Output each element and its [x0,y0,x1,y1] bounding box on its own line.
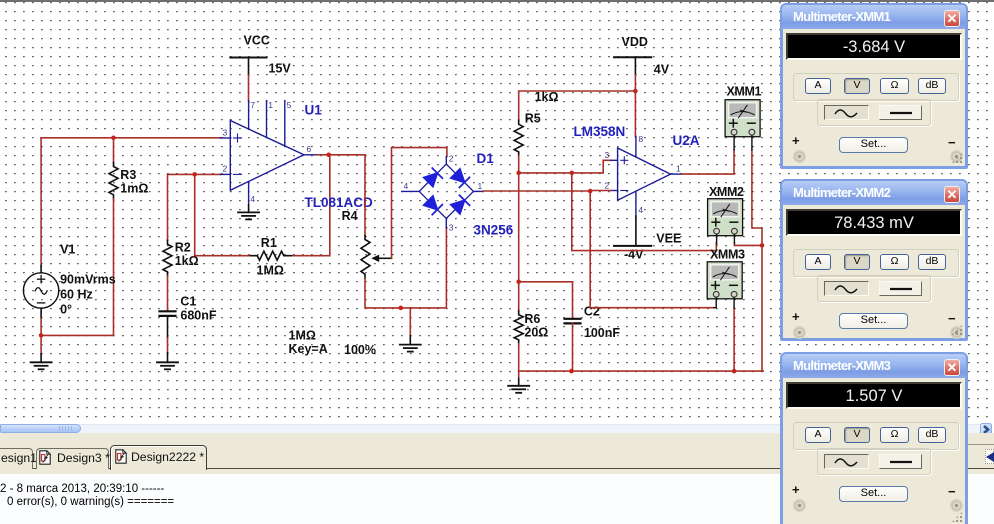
wire: U1 pin4 to ground [248,205,250,212]
net label VDD [622,35,648,49]
svg-text:2: 2 [449,154,454,164]
wire: R2 top to U1 inverting input [168,174,221,240]
wire: U2 pin 4 to VEE [635,216,637,246]
svg-text:15V: 15V [269,62,292,76]
node G junction dot [516,171,521,176]
wire: R3 bottom to bottom node [113,199,115,336]
node K junction dot [569,369,574,374]
wire: VCC to U1 pin 7 [248,75,250,101]
multimeter probe XMM3 icon [707,262,742,299]
wire: node E to ground stem [409,308,411,336]
U1 pin 4 [248,182,250,205]
pin number 3 (D1) [449,223,454,233]
wire: node J to C2 branch [519,282,573,319]
wire: U2 inverting node to pin 2 [590,190,611,192]
svg-text:XMM1: XMM1 [727,85,762,99]
ground (R4 rail) [400,336,421,352]
svg-text:R2: R2 [175,241,191,255]
svg-text:VCC: VCC [244,34,270,48]
svg-text:4: 4 [404,181,409,191]
wire: node H to U2 pin 3 [572,160,611,173]
U1 pin 3 noninverting [221,137,231,139]
svg-text:2: 2 [223,164,228,174]
svg-text:20Ω: 20Ω [524,326,548,340]
label U1 [305,103,323,118]
svg-text:C2: C2 [584,305,600,319]
capacitor C2 [565,319,581,324]
capacitor C1 [160,311,176,316]
bridge diode bottom-right [451,195,470,214]
net label VCC [244,34,270,48]
node I junction dot [588,189,593,194]
resistor R2 [163,240,172,276]
U1 pin 7 [248,101,250,130]
svg-text:60 Hz: 60 Hz [60,288,93,302]
U2 pin 3 [611,159,618,161]
power symbol VDD [614,57,651,75]
label XMM3 [710,248,745,262]
ground (rail) [508,386,529,393]
svg-text:5: 5 [287,100,292,110]
wire: R2 bottom to C1 top [167,276,169,311]
value label 60 Hz [60,288,93,302]
value label 680nF [180,309,216,323]
svg-text:100%: 100% [344,343,376,357]
pin number 2 (D1) [449,154,454,164]
wire: node I down to XMM3 plus [590,191,714,308]
label 3N256 [474,223,514,238]
wire: bottom node to R3 bottom [41,334,113,336]
D1 pin 3 stub [445,219,447,229]
svg-text:3: 3 [605,150,610,160]
svg-text:4: 4 [250,194,255,204]
svg-text:6: 6 [307,144,312,154]
svg-text:1MΩ: 1MΩ [289,329,316,343]
wire: node F to R5 top [519,91,636,120]
wire: R4 wiper to bridge pin 2 [392,148,447,259]
U2 pin 2 [611,190,618,192]
label R6 [524,312,540,326]
wire: bottom rail [519,370,763,372]
svg-text:4V: 4V [654,63,670,77]
svg-text:U2A: U2A [673,133,700,148]
svg-text:R1: R1 [261,236,277,250]
value label 90mVrms [60,273,116,287]
pin number 1 (D1) [478,181,483,191]
ground (C1) [157,362,178,369]
value label 4V [654,63,670,77]
svg-text:R5: R5 [525,112,541,126]
svg-text:D1: D1 [477,151,495,166]
D1 pin 4 stub [402,190,419,192]
svg-text:VEE: VEE [656,232,681,246]
U2 pin 4 [635,191,637,216]
svg-text:XMM3: XMM3 [710,248,745,262]
svg-text:2: 2 [605,181,610,191]
resistor R1 [251,251,294,260]
resistor R5 [514,120,523,156]
wire: R6 bottom to rail [518,344,520,371]
node D junction dot [326,153,331,158]
U1 pin 2 inverting [221,173,231,175]
node E junction dot [399,306,404,311]
wire: C2 bottom to rail [572,323,574,371]
node A junction dot [111,136,116,141]
multimeter probe XMM2 icon [708,199,743,236]
wire: node A to R3 top [113,138,115,163]
pin number 4 (U1) [250,194,255,204]
op-amp U1 TL081ACD [230,121,304,191]
value label 1mOhm [120,182,148,196]
R4 wiper arrow [371,255,379,262]
wire: node G down to node J [518,173,520,282]
label XMM1 [727,85,762,99]
multimeter window XMM1 [780,3,968,169]
value label 1MOhm (R1) [257,264,284,278]
svg-text:3N256: 3N256 [474,223,514,238]
multimeter probe XMM1 icon [725,100,760,137]
value label 0 deg [60,303,72,317]
U1 pin 5 [284,101,286,146]
D1 pin 1 stub [473,190,483,192]
svg-text:LM358N: LM358N [574,124,626,139]
wire: XMM1 plus stub [733,135,735,150]
source V1 [23,266,58,319]
svg-text:3: 3 [223,128,228,138]
svg-text:1: 1 [268,100,273,110]
value label Key=A [289,342,328,356]
pin number 6 [307,144,312,154]
svg-text:1: 1 [478,181,483,191]
U1 pin 6 output [304,154,317,156]
wire: R5 bottom to node G [518,156,520,173]
node F junction dot [633,89,638,94]
wire: node C to R1 left [195,174,251,255]
svg-text:0°: 0° [60,303,72,317]
wire: node F down to U2 pin 8 [634,91,636,137]
wire: node H down to XMM2 plus [572,173,717,251]
svg-text:TL081ACD: TL081ACD [305,195,374,210]
label R4 [342,209,358,223]
node B junction dot [39,333,44,338]
label C1 [180,295,196,309]
value label 100nF [584,326,620,340]
wire: node J to R6 top [518,282,520,311]
wire: R4 bottom to bridge bottom rail [365,228,446,308]
wire: XMM1 minus stub [751,135,753,150]
wire: U1 output to node D [317,154,365,156]
wire: node D down to R4 top [364,155,366,236]
svg-text:C1: C1 [180,295,196,309]
value label 100% [344,343,376,357]
wire: bottom node to ground [40,335,42,362]
value label 1kOhm (R5) [535,90,559,104]
bridge diode bottom-left [424,196,443,215]
svg-text:3: 3 [449,223,454,233]
bottom UI: scrollbar [0,421,994,524]
svg-text:1mΩ: 1mΩ [120,182,148,196]
wire: V1 minus to bottom node [40,318,42,335]
label R1 [261,236,277,250]
svg-text:1: 1 [676,164,681,174]
power symbol VEE [614,245,651,247]
svg-text:R6: R6 [524,312,540,326]
bridge diode top-right [451,169,470,188]
wire: V1 plus to node A horizontal [41,137,220,139]
svg-text:100nF: 100nF [584,326,620,340]
label C2 [584,305,600,319]
pin number 7 [250,100,255,110]
value label 1MOhm (R4) [289,329,316,343]
svg-text:VDD: VDD [622,35,648,49]
wire: VDD down to node F [634,75,636,91]
svg-text:90mVrms: 90mVrms [60,273,116,287]
wire: XMM2 plus stub [716,234,718,244]
label U2A [673,133,700,148]
bottom UI: design tabs [0,433,994,474]
svg-text:1MΩ: 1MΩ [257,264,284,278]
node C junction dot [192,172,197,177]
value label R3 [120,168,136,182]
pin number 2 [223,164,228,174]
wire: D1 pin1 to U2 inverting node [483,190,590,192]
svg-text:8: 8 [638,134,643,144]
wire: node G to node H [519,172,572,174]
resistor R6 [514,311,523,344]
value label 20Ohm [524,326,548,340]
value label -4V [624,248,644,262]
wire: C1 bottom to ground [167,316,169,362]
wire: XMM3 minus stub [733,298,735,309]
net label VEE [656,232,681,246]
svg-text:R3: R3 [120,168,136,182]
label TL081ACD [305,195,374,210]
multimeter window XMM3 [780,352,968,524]
node M junction dot [760,243,765,248]
wire: XMM3 plus stub [714,298,716,308]
wire: V1 plus vertical [40,138,42,266]
wire: rail to ground [518,371,520,386]
pin number 8 (U2) [638,134,643,144]
label R5 [525,112,541,126]
U2 pin 8 [635,137,637,158]
op-amp U2A LM358N [618,148,671,200]
label V1 [60,243,75,257]
wire: XMM2 minus to node M [734,243,762,245]
svg-text:U1: U1 [305,103,323,118]
wire: node M down to rail end [762,245,763,371]
node H junction dot [570,171,575,176]
pin number 3 [223,128,228,138]
svg-text:1kΩ: 1kΩ [535,90,559,104]
diode bridge D1 outline [419,164,473,218]
wire: XMM3 minus down to rail [733,308,735,371]
potentiometer R4 [361,236,392,279]
node J junction dot [516,280,521,285]
label D1 [477,151,495,166]
pin number 1 (U2) [676,164,681,174]
pin number 2 (U2) [605,181,610,191]
pin number 3 (U2) [605,150,610,160]
power symbol VCC [230,58,266,76]
label R2 [175,241,191,255]
svg-text:R4: R4 [342,209,358,223]
value label 1kOhm (R2) [175,254,199,268]
svg-text:Key=A: Key=A [289,342,328,356]
value label 15V [269,62,292,76]
label LM358N [574,124,626,139]
node L junction dot [732,369,737,374]
svg-text:4: 4 [638,205,643,215]
svg-text:680nF: 680nF [180,309,216,323]
resistor R3 [109,163,118,199]
ground (V1) [31,362,52,369]
wire: XMM2 minus stub [733,234,735,243]
svg-text:-4V: -4V [624,248,644,262]
bridge diode top-left [424,168,443,187]
ground (U1) [238,212,259,219]
U2 pin 1 output [671,173,683,175]
wire: U2 output to XMM1 plus [682,150,734,174]
D1 pin 2 stub [445,157,447,165]
svg-text:7: 7 [250,100,255,110]
multimeter window XMM2 [780,179,968,341]
svg-text:XMM2: XMM2 [709,185,744,199]
pin number 4 (D1) [404,181,409,191]
svg-text:V1: V1 [60,243,75,257]
pin number 1 [268,100,273,110]
pin number 4 (U2) [638,205,643,215]
bottom UI: spreadsheet/results pane [0,474,994,476]
wire: XMM1 minus chain [752,150,762,245]
pin number 5 [287,100,292,110]
U1 pin 1 [266,101,268,138]
wire: R1 right to U1 output node [293,155,330,256]
label XMM2 [709,185,744,199]
